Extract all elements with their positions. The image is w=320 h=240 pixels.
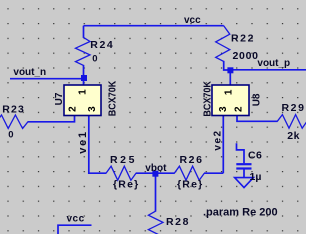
svg-text:R22: R22 <box>231 32 255 44</box>
svg-text:ve1: ve1 <box>77 130 89 154</box>
svg-text:3: 3 <box>218 106 229 112</box>
svg-text:BCX70K: BCX70K <box>107 80 118 116</box>
svg-text:U7: U7 <box>54 92 65 105</box>
svg-text:{Re}: {Re} <box>177 178 203 190</box>
svg-text:BCX70K: BCX70K <box>203 80 214 116</box>
svg-text:0: 0 <box>8 129 13 140</box>
svg-text:3: 3 <box>87 106 98 112</box>
svg-text:C6: C6 <box>248 150 262 162</box>
svg-text:2000: 2000 <box>233 50 259 62</box>
svg-text:R24: R24 <box>90 39 114 51</box>
svg-text:1µ: 1µ <box>250 171 262 183</box>
svg-text:1: 1 <box>224 89 235 95</box>
svg-text:vout_n: vout_n <box>13 67 46 78</box>
svg-text:0: 0 <box>92 54 97 65</box>
svg-text:vout_p: vout_p <box>257 58 290 69</box>
svg-text:ve2: ve2 <box>213 129 224 150</box>
svg-text:R25: R25 <box>110 154 137 166</box>
svg-text:vcc: vcc <box>67 214 85 225</box>
svg-text:{Re}: {Re} <box>113 178 139 190</box>
svg-text:vbot: vbot <box>145 163 167 174</box>
svg-text:1: 1 <box>77 89 88 95</box>
svg-text:U8: U8 <box>252 93 263 106</box>
svg-text:2: 2 <box>233 106 244 112</box>
svg-text:R26: R26 <box>180 154 204 166</box>
svg-text:R29: R29 <box>282 102 306 114</box>
svg-text:vcc: vcc <box>184 15 201 26</box>
svg-text:R23: R23 <box>2 104 25 116</box>
svg-text:2: 2 <box>68 106 79 112</box>
svg-text:2k: 2k <box>287 130 300 142</box>
svg-text:R28: R28 <box>166 216 190 228</box>
svg-text:.param Re 200: .param Re 200 <box>203 207 278 219</box>
